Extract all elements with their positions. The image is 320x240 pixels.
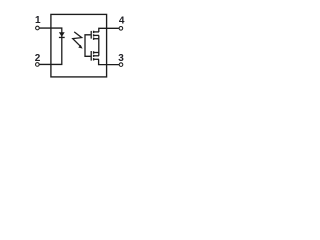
MOSFET Q2 body stub [94, 55, 99, 57]
background [0, 0, 156, 106]
svg-text:3: 3 [118, 53, 124, 64]
pin 4 terminal circle [119, 27, 123, 31]
pin 2 terminal circle [36, 63, 40, 67]
MOSFET Q2 drain stub [94, 58, 99, 60]
MOSFET Q2 channel segments [93, 51, 95, 60]
MOSFET Q2 source stub [94, 52, 99, 54]
gate node wire connecting both MOSFET gates [85, 35, 91, 57]
pin 1 terminal circle [36, 26, 40, 30]
light bolt arrowhead [78, 45, 82, 49]
svg-text:4: 4 [119, 15, 125, 26]
wire Q2 drain to pin3 [99, 59, 119, 64]
svg-text:1: 1 [35, 15, 41, 26]
pin 3 terminal circle [119, 63, 123, 67]
common source tie wire between Q1 and Q2 [98, 35, 100, 55]
wire pin4 to Q1 drain riser [99, 28, 119, 32]
svg-text:2: 2 [35, 53, 41, 64]
package outline box U1 [51, 14, 107, 77]
MOSFET Q1 source stub [94, 38, 99, 40]
MOSFET Q1 channel segments [93, 31, 95, 40]
MOSFET Q1 (top) gate bar [90, 31, 92, 39]
MOSFET Q1 body stub [94, 34, 99, 36]
light bolt arrow from LED to MOSFET gates [73, 32, 82, 47]
MOSFET Q1 drain stub [94, 31, 99, 33]
LED D1 cathode bar [59, 36, 65, 38]
LED D1 triangle (anode top, pointing down) [59, 32, 65, 37]
MOSFET Q2 (bottom) gate bar [90, 51, 92, 61]
wire pin1 to LED anode (top) and LED branch down to pin2 wire [39, 28, 61, 64]
